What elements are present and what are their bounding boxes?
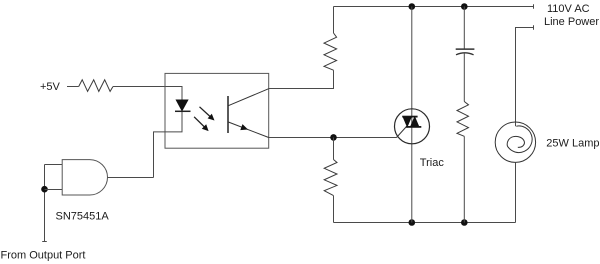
junction dot top rail / snubber [461,3,468,10]
svg-text:110V AC: 110V AC [547,3,590,15]
junction dot top rail / triac [409,3,416,10]
lamp L1 filament spiral [507,126,532,153]
wire capacitor C1 to resistor R4 [463,53,465,102]
wire junction down to resistor R3 [333,138,335,160]
terminal tick neutral [533,25,535,29]
light arrow 2 [194,117,209,131]
resistor R3 (lower left pull-down) [324,160,337,196]
svg-text:25W Lamp: 25W Lamp [546,137,599,149]
capacitor C1 top plate [456,48,475,50]
triac T1 bottom bar MT1 [406,126,422,128]
phototransistor Q1 emitter lead with arrow [228,122,269,138]
wire top rail to capacitor C1 [463,7,465,49]
phototransistor Q1 base line [227,96,229,133]
wire gate input bottom [45,189,63,191]
wire lamp to bottom rail [515,162,517,222]
optocoupler U1 box [165,73,269,148]
light arrow 1 [200,107,215,121]
triac T1 circle [395,109,430,144]
bottom rail wire [334,222,516,224]
wire gate input top [45,164,63,166]
wire resistor R4 to bottom rail [463,136,465,222]
resistor R1 (LED series resistor) [79,80,113,92]
phototransistor Q1 collector lead [228,89,269,106]
terminal tick top rail [533,4,535,8]
wire from R1 to optocoupler LED anode [113,87,182,101]
wire resistor R3 to bottom rail [333,196,335,223]
LED D1 cathode bar [175,110,191,112]
triac T1 top bar MT2 [402,116,417,118]
junction dot emitter / R3 [330,134,337,141]
LED D1 anode triangle [176,100,188,111]
terminal tick from output port [42,241,47,243]
triac T1 vertical wire [411,7,413,223]
wire emitter to triac gate [269,137,397,139]
triac T1 right triangle [411,117,419,127]
svg-text:From Output Port: From Output Port [1,250,86,262]
svg-text:Triac: Triac [420,157,445,169]
junction dot bottom rail / triac [409,219,416,226]
wire gate output [108,177,154,179]
svg-text:Line Power: Line Power [544,16,599,28]
svg-text:+5V: +5V [40,81,61,93]
resistor R4 (snubber) [457,102,469,137]
capacitor C1 bottom plate (curved) [456,53,474,55]
junction dot gate inputs [41,186,48,193]
svg-text:SN75451A: SN75451A [56,210,110,222]
lamp L1 outer circle [495,122,535,162]
top rail wire (110V AC hot) [334,6,534,8]
triac T1 gate lead [397,127,407,138]
gate U2 input vertical wire [44,165,46,242]
wire from +5V to resistor R1 [67,86,79,88]
resistor R2 (upper right) [324,33,337,70]
wire resistor R2 to top rail [333,7,335,34]
gate U2 AND body [62,160,107,195]
triac T1 left triangle [403,117,411,127]
wire from LED cathode down-left to gate output [154,112,183,178]
wire AC neutral terminal to lamp [516,28,534,127]
wire collector to resistor chain [269,70,334,88]
junction dot bottom rail / snubber [461,219,468,226]
